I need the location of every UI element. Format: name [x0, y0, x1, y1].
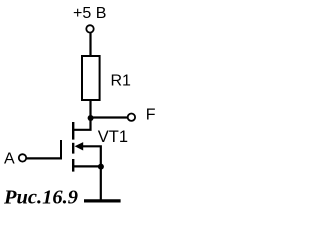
svg-text:F: F [146, 107, 156, 124]
junction drain node [88, 115, 94, 121]
wire node to drain [74, 117, 91, 130]
svg-text:VT1: VT1 [98, 128, 128, 146]
transistor VT1 body channel segment [72, 143, 74, 154]
terminal A [19, 154, 26, 161]
svg-text:A: A [4, 151, 15, 168]
wire substrate lead [82, 146, 101, 166]
ground [84, 199, 121, 202]
wire R1 to drain node [89, 101, 91, 118]
junction source node [98, 164, 104, 170]
terminal +5V [86, 25, 93, 32]
transistor VT1 source channel segment [72, 159, 74, 172]
transistor VT1 drain channel segment [72, 122, 74, 140]
wire supply to R1 [89, 33, 91, 56]
wire node to F terminal [91, 116, 128, 118]
svg-text:Рис.16.9: Рис.16.9 [3, 186, 78, 208]
svg-text:+5 В: +5 В [73, 5, 106, 22]
transistor VT1 gate electrode [60, 140, 62, 159]
resistor R1 [82, 56, 100, 100]
wire source lead [74, 165, 101, 167]
wire gate lead from A [26, 157, 62, 159]
wire source to ground [100, 166, 102, 200]
svg-text:R1: R1 [111, 73, 132, 90]
terminal F [128, 114, 135, 121]
transistor VT1 substrate arrow [75, 142, 84, 150]
